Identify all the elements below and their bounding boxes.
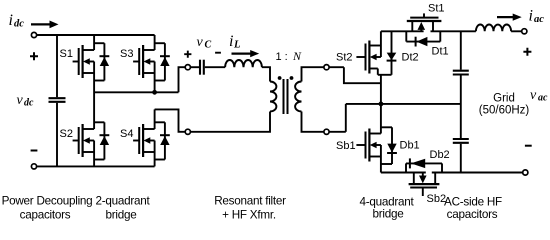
wire S4 diode top branch [155, 121, 165, 123]
minus sign vC [215, 52, 221, 54]
plus sign dc [30, 52, 38, 60]
svg-text:+ HF Xfmr.: + HF Xfmr. [222, 208, 276, 221]
capacitor Cdc lead bottom [56, 103, 58, 167]
svg-text:N: N [292, 49, 302, 63]
wire S4 return tap [155, 109, 185, 131]
svg-text:Dt1: Dt1 [432, 46, 449, 58]
svg-text:dc: dc [24, 98, 34, 109]
wire S3 diode bottom branch [155, 80, 165, 82]
diode Db1 [387, 127, 397, 164]
node iL label [229, 33, 240, 51]
wire node A jog [344, 67, 381, 83]
node vC label [197, 35, 212, 51]
svg-text:capacitors: capacitors [447, 208, 498, 221]
svg-text:Db1: Db1 [400, 140, 420, 152]
minus sign dc [31, 150, 38, 152]
svg-text:capacitors: capacitors [20, 208, 71, 221]
svg-text:1 :: 1 : [276, 51, 288, 63]
node idc label [9, 12, 25, 30]
wire S3 source to midbus [154, 73, 156, 92]
wire inductor to ac terminal [511, 30, 521, 32]
wire primary bottom return [191, 112, 270, 132]
wire inductor to primary [262, 67, 270, 81]
terminal secondary top [324, 65, 329, 70]
svg-text:Sb1: Sb1 [336, 140, 356, 152]
wire St2 drain to node Q [377, 69, 379, 75]
svg-text:dc: dc [14, 19, 24, 30]
svg-text:St1: St1 [428, 3, 445, 15]
svg-text:AC-side HF: AC-side HF [444, 196, 502, 209]
wire Sb1 source to bottom rail [380, 157, 382, 173]
svg-text:S3: S3 [120, 48, 133, 60]
diode Dt1 [406, 31, 440, 46]
wire node B riser [345, 104, 347, 132]
wire cap bottom lead [460, 144, 462, 173]
wire cap midpoint section [460, 76, 462, 139]
capacitor Cac top lead [460, 31, 462, 69]
svg-text:ac: ac [538, 93, 548, 104]
arrow iac current direction [497, 14, 522, 21]
wire S2 diode top branch [94, 121, 104, 123]
transistor S2 [73, 124, 95, 157]
wire cap to inductor [205, 66, 225, 68]
svg-text:S1: S1 [60, 48, 73, 60]
inductor L ac side [476, 24, 511, 31]
minus sign ac [525, 145, 532, 147]
wire top dc bus [37, 34, 155, 36]
svg-text:C: C [205, 39, 212, 50]
transistor S4 [133, 124, 155, 157]
svg-text:ac: ac [534, 14, 544, 25]
wire node A vertical [380, 75, 382, 134]
polarity dot primary [278, 76, 282, 80]
wire leg1 midpoint [93, 73, 95, 129]
arrow iL current direction [232, 50, 260, 57]
wire bottom dc bus [37, 165, 155, 167]
capacitor Cac top [453, 71, 469, 75]
label grid [479, 93, 530, 117]
wire tank plus to cap [191, 66, 199, 68]
svg-text:(50/60Hz): (50/60Hz) [479, 105, 530, 117]
transistor St2 [356, 41, 381, 74]
wire node B to cap midpoint [346, 103, 461, 105]
svg-text:i: i [529, 8, 533, 25]
svg-text:L: L [233, 40, 240, 51]
wire S1 diode top branch [94, 42, 104, 44]
transistor Sb2 [409, 173, 440, 197]
capacitor Cac bottom [453, 139, 469, 143]
wire S3 diode top branch [155, 42, 165, 44]
junction node A crossing [379, 102, 384, 107]
transistor S1 [73, 45, 95, 78]
wire node P bus [381, 30, 424, 32]
svg-text:2-quadrant: 2-quadrant [95, 195, 150, 208]
svg-text:i: i [229, 33, 233, 50]
diode D4 body of S4 [160, 122, 170, 159]
wire riser to tank plus [179, 67, 185, 92]
wire S1 drain lead [93, 35, 95, 50]
caption 4-quadrant bridge [359, 196, 414, 221]
terminal tank return [185, 129, 190, 134]
transistor Sb1 [356, 129, 381, 162]
transformer core [284, 79, 288, 114]
wire S2 source to bottom bus [93, 152, 95, 166]
wire S3 drain lead [154, 35, 156, 50]
plus sign ac [523, 48, 531, 56]
wire S4 diode bottom branch [155, 159, 165, 161]
wire node Q [378, 74, 392, 76]
wire St2 source riser [380, 31, 382, 45]
svg-text:v: v [197, 35, 204, 50]
svg-text:v: v [17, 93, 24, 108]
wire bridge midbus [94, 91, 178, 93]
plus sign vC [184, 51, 191, 58]
caption power decoupling capacitors [2, 195, 93, 222]
inductor L resonant [225, 60, 262, 67]
terminal ac plus [522, 29, 527, 34]
svg-text:bridge: bridge [373, 208, 404, 221]
capacitor C resonant [200, 60, 204, 75]
diode D1 body of S1 [100, 43, 110, 80]
caption 2-quadrant bridge [95, 195, 150, 222]
wire secondary bottom [302, 112, 346, 132]
svg-text:S4: S4 [120, 128, 133, 140]
transistor St1 [407, 13, 442, 31]
wire Sb1 diode top branch [381, 126, 392, 128]
caption ac-side hf capacitors [444, 196, 502, 222]
wire node Q2 rail [381, 172, 426, 174]
wire S4 drain lead [154, 109, 156, 129]
svg-text:S2: S2 [60, 128, 73, 140]
arrow idc current direction [31, 21, 59, 29]
wire ac plus bus [431, 30, 476, 32]
wire S1 diode bottom branch [94, 80, 104, 82]
diode Db2 [406, 158, 442, 172]
svg-text:Db2: Db2 [430, 149, 450, 161]
svg-text:Power Decoupling: Power Decoupling [2, 195, 93, 208]
wire Sb1 diode bottom branch [381, 163, 392, 165]
node vac label [530, 88, 548, 104]
transformer primary winding [270, 82, 276, 112]
polarity dot secondary [290, 76, 294, 80]
svg-text:Dt2: Dt2 [402, 52, 419, 64]
diode Dt2 [387, 31, 397, 75]
svg-text:Resonant filter: Resonant filter [214, 195, 286, 208]
wire S4 source to bottom bus [154, 152, 156, 166]
svg-text:v: v [530, 88, 537, 103]
wire ac minus bus [432, 172, 523, 174]
svg-text:St2: St2 [336, 52, 353, 64]
svg-text:Grid: Grid [493, 93, 515, 105]
wire S2 diode bottom branch [94, 159, 104, 161]
terminal ac minus [523, 170, 528, 175]
terminal secondary bottom [324, 129, 329, 134]
caption resonant filter [214, 195, 286, 222]
junction midbus S3 leg [152, 90, 157, 95]
terminal dc positive [31, 32, 36, 37]
transistor S3 [133, 45, 155, 78]
terminal tank plus [185, 65, 190, 70]
svg-text:i: i [9, 12, 13, 29]
terminal dc negative [31, 164, 36, 169]
capacitor Cdc lead top [56, 35, 58, 97]
wire secondary top [302, 67, 344, 81]
capacitor Cdc [49, 98, 66, 102]
diode D2 body of S2 [100, 122, 110, 159]
svg-text:bridge: bridge [106, 208, 137, 221]
transformer secondary winding [295, 82, 301, 112]
label turns ratio 1:N [276, 49, 303, 63]
node vdc label [17, 93, 35, 109]
node iac label [529, 8, 545, 26]
diode D3 body of S3 [160, 43, 170, 80]
